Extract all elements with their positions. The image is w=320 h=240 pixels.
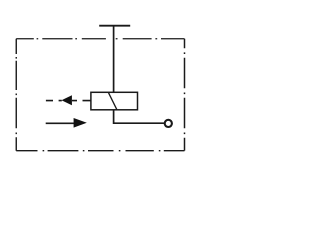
enclosure dash-dot box top edge (16, 38, 184, 40)
enclosure dash-dot box bottom edge (16, 150, 184, 152)
dashed actuation line (left side) (46, 100, 91, 102)
right-pointing arrowhead on solid line (74, 118, 87, 128)
terminal bar (T) at top (99, 25, 130, 27)
actuator box (rectangle) (91, 92, 138, 110)
enclosure dash-dot box right edge (184, 39, 186, 151)
enclosure dash-dot box left edge (15, 39, 17, 151)
solid motion line (lower left) (46, 122, 76, 124)
open circle terminal (165, 120, 172, 127)
wire from top bar to actuator box (113, 26, 115, 93)
left-pointing arrowhead on dashed line (62, 95, 72, 105)
diagonal line inside actuator box (108, 93, 116, 110)
wire from actuator box bottom (114, 110, 165, 124)
